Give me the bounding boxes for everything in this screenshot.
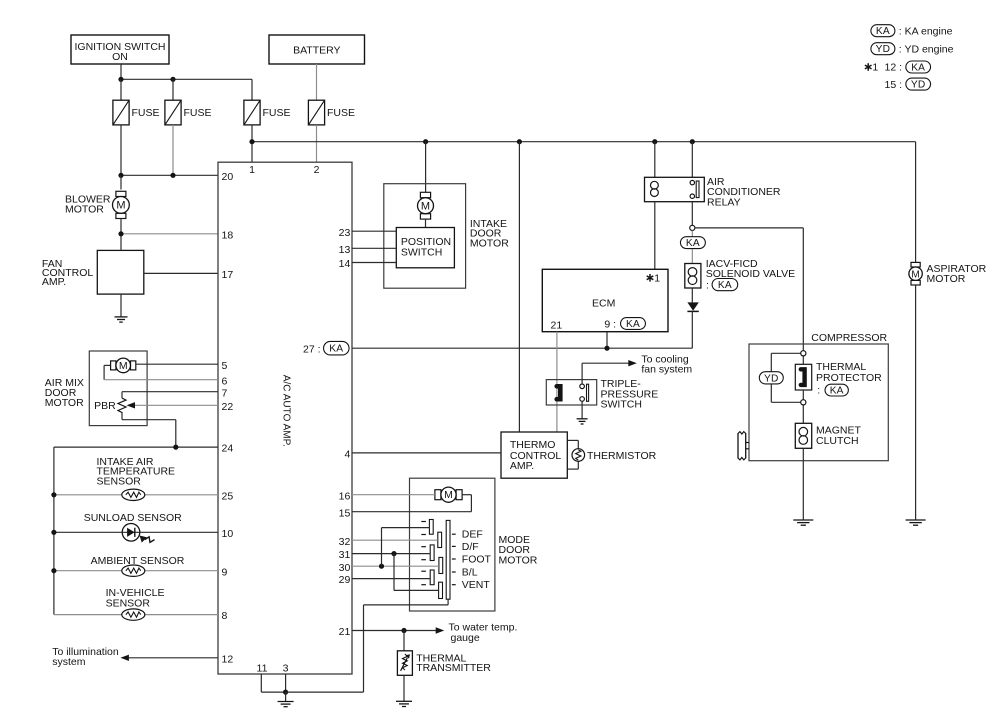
wire connector to IACV coil (691, 231, 693, 264)
wire pin 31 (352, 553, 430, 555)
svg-text:A/C AUTO AMP.: A/C AUTO AMP. (280, 375, 292, 447)
wire PBR bottom to pin 24 junction (121, 414, 123, 420)
svg-text:KA: KA (686, 238, 700, 249)
A/C auto amp box (218, 162, 352, 674)
ambient sensor (122, 565, 145, 576)
wire relay coil to ECM (654, 202, 656, 270)
svg-text:25: 25 (222, 490, 234, 502)
label *1 in ECM (649, 274, 651, 282)
svg-text:M: M (444, 489, 453, 501)
wire relay contact to compressor (695, 227, 803, 229)
PBR potentiometer (118, 398, 126, 414)
wire pin 10 (54, 531, 218, 533)
wire fuse2 top (172, 79, 174, 100)
wire fuse1 top (120, 79, 122, 100)
junction pin30 branch (379, 564, 384, 569)
mode switch bar 4 (439, 557, 443, 573)
svg-text:TRANSMITTER: TRANSMITTER (416, 662, 491, 674)
svg-text:KA: KA (876, 26, 890, 37)
thermal protector box (795, 364, 811, 390)
svg-text:5: 5 (222, 360, 228, 372)
mode switch bar 6 (439, 582, 443, 598)
position switch box (396, 228, 454, 268)
ground A/C auto amp (278, 701, 294, 703)
junction rail-intake door motor (423, 139, 428, 144)
junction PBR-pin24 (173, 445, 178, 450)
wire thermo amp feed down (518, 142, 520, 432)
mode switch bar 2 (438, 532, 442, 547)
fuse F1 (113, 100, 129, 125)
relay contact bar (696, 181, 699, 198)
air conditioner relay box (645, 177, 705, 201)
wire pin 9 (54, 570, 218, 572)
svg-text:PBR: PBR (94, 400, 116, 412)
wire pin 21 (352, 630, 441, 632)
svg-text:COMPRESSOR: COMPRESSOR (811, 332, 887, 344)
junction ground bus (283, 690, 288, 695)
svg-text:27 :: 27 : (303, 343, 321, 355)
svg-text:ON: ON (112, 51, 128, 63)
thermal transmitter symbol (403, 654, 408, 670)
mode door motor box (410, 478, 495, 611)
svg-text:ECM: ECM (592, 297, 615, 309)
svg-text:MOTOR: MOTOR (470, 237, 509, 249)
wire pin 27 KA net (352, 347, 692, 349)
wire aspirator motor to ground (915, 285, 917, 520)
svg-text:12: 12 (222, 653, 234, 665)
svg-text:SUNLOAD SENSOR: SUNLOAD SENSOR (84, 512, 182, 524)
ground aspirator motor (906, 519, 926, 521)
svg-text:AMP.: AMP. (510, 460, 534, 472)
wire TPS to ground (581, 401, 583, 419)
sunload light arrow (145, 537, 155, 543)
arrow to cooling fan system (628, 360, 637, 366)
connector circle thermal protector bottom (801, 400, 806, 405)
thermo control amp box (501, 432, 567, 478)
KA oval below relay (680, 237, 705, 249)
wire to magnet clutch (802, 405, 804, 423)
mode door motor M4 (435, 490, 441, 500)
svg-text:gauge: gauge (451, 632, 480, 644)
svg-text:PROTECTOR: PROTECTOR (816, 372, 882, 384)
svg-text:: YD engine: : YD engine (899, 44, 954, 56)
ground thermal transmitter (396, 700, 412, 702)
air mix door motor M2 (111, 361, 116, 370)
wire ECM pin 9 down (606, 332, 608, 349)
junction blower-pin18 (118, 231, 123, 236)
svg-text:D/F: D/F (462, 541, 479, 553)
svg-text:MOTOR: MOTOR (45, 397, 84, 409)
wire pin 22 wiper (134, 404, 218, 406)
legend YD oval (871, 43, 895, 55)
svg-text:21: 21 (551, 320, 563, 332)
blower motor M1 (116, 191, 126, 196)
battery box (269, 35, 365, 64)
ground triple-pressure switch (577, 418, 588, 420)
ECM box (542, 269, 668, 331)
arrow PBR wiper (127, 402, 136, 408)
wire pin 23 (352, 230, 396, 232)
triple-pressure switch circles (580, 384, 585, 389)
wire pin 15 (352, 511, 471, 513)
wire pin 32 (352, 539, 438, 541)
wire fan control amp to ground (120, 294, 122, 317)
svg-text:MOTOR: MOTOR (65, 203, 104, 215)
wire pin 25 (54, 494, 218, 496)
svg-text:1: 1 (654, 273, 660, 285)
svg-text:M: M (116, 200, 125, 212)
air mix door motor box (89, 351, 147, 426)
wire pin 3 down (285, 674, 287, 692)
svg-text:4: 4 (344, 449, 350, 461)
thermal transmitter box (397, 651, 412, 676)
mode switch common bar (446, 520, 450, 599)
svg-text:KA: KA (830, 386, 844, 397)
svg-text:22: 22 (222, 401, 234, 413)
wire to thermal protector (802, 356, 804, 364)
svg-text:KA: KA (329, 344, 343, 355)
svg-text:29: 29 (339, 574, 351, 586)
wire to thermal transmitter (403, 631, 405, 651)
legend KA oval (871, 25, 895, 37)
svg-text:17: 17 (222, 269, 234, 281)
svg-text:12 :: 12 : (885, 62, 903, 74)
fan control amp box (97, 250, 144, 294)
fuse F3 (244, 100, 260, 125)
wire fuse4 down to A/C auto amp pin 2 (316, 125, 318, 162)
junction ECM9-pin27 net (604, 346, 609, 351)
YD bypass wire (771, 352, 800, 354)
svg-text:15 :: 15 : (885, 79, 903, 91)
legend *1 star (867, 63, 869, 71)
wire motor to position switch (425, 219, 427, 227)
arrow to illumination system (120, 655, 128, 661)
wire ignition switch down (120, 64, 122, 79)
junction rail-relay contact (690, 139, 695, 144)
svg-text:THERMISTOR: THERMISTOR (587, 450, 657, 462)
wire rail down to aspirator motor (915, 142, 917, 263)
svg-text:30: 30 (339, 562, 351, 574)
svg-text:SENSOR: SENSOR (97, 475, 142, 487)
svg-text:MOTOR: MOTOR (927, 273, 966, 285)
svg-text:9: 9 (222, 566, 228, 578)
wire pin 29 (352, 578, 430, 580)
wire pin 14 (352, 262, 396, 264)
wire rail to relay contact (691, 142, 693, 178)
junction ignition-fuse2 (170, 77, 175, 82)
svg-text:8: 8 (222, 610, 228, 622)
svg-text:M: M (911, 269, 919, 280)
svg-text:13: 13 (339, 244, 351, 256)
thermistor bracket (567, 439, 578, 441)
wire pin 13 (352, 247, 396, 249)
wire to amp ground (285, 692, 287, 701)
relay coil (651, 181, 659, 189)
KA oval at pin 27 (324, 341, 350, 355)
intake air temperature sensor (122, 489, 145, 500)
connector circle below relay (690, 225, 695, 230)
wire thermal transmitter to ground (403, 675, 405, 701)
wire diode to pin27 net (691, 311, 693, 348)
svg-text:AMBIENT SENSOR: AMBIENT SENSOR (91, 555, 185, 567)
junction rail-relay coil (652, 139, 657, 144)
wire IACV coil to diode (691, 288, 693, 302)
svg-text:SWITCH: SWITCH (601, 399, 642, 411)
svg-text:16: 16 (339, 490, 351, 502)
wire ECM pin 21 down to triple-pressure switch (556, 332, 558, 432)
ground compressor (793, 519, 813, 521)
svg-text:fan system: fan system (641, 364, 692, 376)
svg-text:21: 21 (339, 626, 351, 638)
wire pin 11 down (260, 674, 262, 692)
svg-text:RELAY: RELAY (707, 196, 741, 208)
svg-text:18: 18 (222, 229, 234, 241)
ground fan control amp (115, 316, 128, 318)
svg-text:YD: YD (876, 44, 891, 55)
svg-text:MOTOR: MOTOR (499, 554, 538, 566)
svg-text:SENSOR: SENSOR (106, 598, 151, 610)
wire battery down to fuse4 (316, 64, 318, 100)
svg-text:system: system (52, 656, 86, 668)
legend YD oval 15 (906, 78, 931, 90)
svg-text:FUSE: FUSE (184, 107, 212, 119)
svg-text:3: 3 (283, 662, 289, 674)
junction pin20-fuse2 (170, 173, 175, 178)
svg-text:FUSE: FUSE (132, 107, 160, 119)
triple-pressure switch bar (587, 384, 589, 401)
svg-text:20: 20 (222, 171, 234, 183)
wire pin 16 (352, 494, 435, 496)
wire pin 18 (121, 233, 218, 235)
svg-text:: KA engine: : KA engine (899, 26, 953, 38)
svg-text:23: 23 (339, 227, 351, 239)
svg-text:31: 31 (339, 549, 351, 561)
relay contact circles (690, 180, 694, 184)
svg-text:FUSE: FUSE (263, 107, 291, 119)
svg-text:1: 1 (249, 164, 255, 176)
svg-text:YD: YD (911, 80, 926, 91)
fuse F2 (165, 100, 181, 125)
wire pin 4 (352, 452, 501, 454)
intake door motor box (384, 184, 466, 289)
svg-text:6: 6 (222, 375, 228, 387)
KA oval in ECM (621, 318, 646, 330)
junction ignition-fuse1 (118, 77, 123, 82)
svg-text:M: M (421, 200, 430, 212)
wire top supply rail (252, 141, 916, 143)
svg-text::: : (706, 279, 709, 291)
wire fuse3 down to A/C auto amp pin 1 (251, 125, 253, 162)
svg-text:2: 2 (314, 164, 320, 176)
svg-text:M: M (119, 360, 128, 372)
svg-text:SWITCH: SWITCH (401, 247, 442, 259)
svg-text:BATTERY: BATTERY (293, 45, 340, 57)
wire pin 20 feed (121, 174, 218, 176)
compressor pulley symbol (737, 433, 739, 459)
svg-text:CLUTCH: CLUTCH (816, 435, 859, 447)
wire motor left to pin 6 (104, 364, 111, 366)
svg-text:B/L: B/L (462, 567, 478, 579)
wire TPS to cooling fan (581, 363, 583, 384)
thermal protector contact symbol (801, 369, 805, 385)
wire pin 8 (54, 614, 218, 616)
svg-text:24: 24 (222, 443, 234, 455)
wire to blower motor (120, 175, 122, 189)
wire branch pin31 to bar6 (393, 554, 395, 591)
wire ignition bus horizontal (121, 78, 252, 80)
IACV-FICD solenoid valve coil (685, 264, 701, 289)
svg-text:KA: KA (626, 319, 640, 330)
junction pin21-thermal transmitter (401, 628, 406, 633)
svg-text:11: 11 (257, 662, 268, 674)
wire pin 17 (144, 272, 218, 274)
svg-text:VENT: VENT (462, 579, 491, 591)
svg-text:10: 10 (222, 528, 234, 540)
aspirator motor M5 (911, 262, 920, 267)
junction bus-pin10 (51, 530, 56, 535)
svg-text:14: 14 (339, 258, 351, 270)
wire sensor bus vertical (53, 447, 55, 614)
svg-text:FOOT: FOOT (462, 554, 492, 566)
compressor box (749, 344, 888, 461)
svg-text:7: 7 (222, 387, 228, 399)
ignition switch box (71, 35, 169, 64)
mode switch label dashes (452, 533, 456, 535)
magnet clutch coil (795, 423, 811, 448)
diode D1 (687, 302, 698, 310)
wire pin 30 (352, 565, 439, 567)
sunload sensor photodiode (122, 524, 140, 542)
junction rail-thermo control amp feed (517, 139, 522, 144)
mode switch bar 3 (430, 545, 434, 561)
svg-text:DEF: DEF (462, 529, 483, 541)
svg-text:9 :: 9 : (604, 318, 616, 330)
svg-text:1: 1 (872, 62, 878, 74)
junction bus-pin9 (51, 568, 56, 573)
intake door motor M3 (420, 192, 430, 197)
wire rail to relay coil (654, 142, 656, 178)
wire branch pin30 to bar1 (381, 528, 383, 567)
svg-text::: : (817, 385, 820, 397)
KA oval thermal protector (825, 384, 848, 396)
in-vehicle sensor (122, 609, 145, 620)
connector circle thermal protector top (801, 351, 806, 356)
mode switch left dashes (421, 521, 426, 523)
junction pin31 branch (391, 551, 396, 556)
wire pin 7 to PBR top (122, 391, 218, 393)
junction pin20-fuse1 (118, 173, 123, 178)
wire pin 5 from motor (136, 363, 218, 365)
svg-text:KA: KA (718, 280, 732, 291)
junction rail-fuse3 (249, 139, 254, 144)
svg-text:FUSE: FUSE (327, 107, 355, 119)
arrow to water temp gauge (436, 627, 445, 633)
YD oval bypass (759, 372, 783, 384)
wire magnet clutch to ground (802, 448, 804, 520)
wire thermal protector to bottom circle (802, 390, 804, 400)
wire fuse2 to pin20 rail (172, 125, 174, 175)
svg-text:32: 32 (339, 536, 351, 548)
wire blower motor to pin 18 (120, 219, 122, 250)
junction bus-pin25 (51, 492, 56, 497)
svg-text:YD: YD (764, 373, 779, 384)
wire rail to intake door motor (425, 142, 427, 193)
thermistor symbol (572, 449, 585, 462)
legend KA oval 12 (906, 61, 931, 73)
fuse F4 (308, 100, 324, 125)
mode switch bar 5 (430, 570, 434, 585)
triple-pressure switch box (546, 380, 596, 405)
triple-pressure switch contact symbol (557, 386, 561, 399)
KA oval IACV (712, 279, 738, 291)
mode switch bar 1 (429, 520, 433, 535)
svg-text:15: 15 (339, 507, 351, 519)
wire pin 24 (54, 446, 218, 448)
wire pin 12 to illumination (124, 657, 218, 659)
wire relay contact to connector circle (691, 202, 693, 226)
svg-text:KA: KA (911, 63, 925, 74)
wire fuse1 to pin20 rail (120, 125, 122, 175)
svg-text:AMP.: AMP. (42, 276, 66, 288)
wire mode common to ground bus (447, 599, 449, 605)
wire fuse3 top (251, 79, 253, 100)
